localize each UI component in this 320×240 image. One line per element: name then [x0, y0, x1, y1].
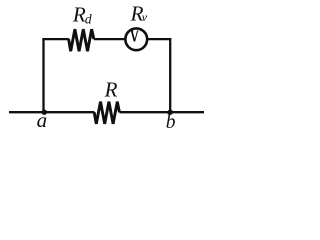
svg-text:R: R [104, 78, 118, 102]
wire right vertical [169, 38, 171, 112]
wire bottom horizontal left segment [9, 111, 94, 113]
wire top horizontal left segment [42, 38, 69, 40]
svg-text:b: b [166, 112, 176, 133]
svg-text:a: a [37, 108, 48, 132]
svg-text:d: d [85, 11, 92, 26]
svg-text:v: v [142, 10, 148, 24]
node a junction dot [42, 110, 47, 115]
resistor R [94, 102, 119, 124]
resistor Rd [69, 29, 94, 51]
wire from voltmeter to right corner [148, 38, 172, 40]
svg-text:R: R [72, 2, 86, 26]
wire bottom horizontal right segment [119, 111, 204, 113]
wire between Rd and voltmeter [94, 38, 125, 40]
voltmeter U1 circle [125, 28, 147, 50]
wire left vertical [42, 38, 44, 112]
node b junction dot [168, 110, 173, 115]
voltmeter V label [131, 31, 138, 41]
